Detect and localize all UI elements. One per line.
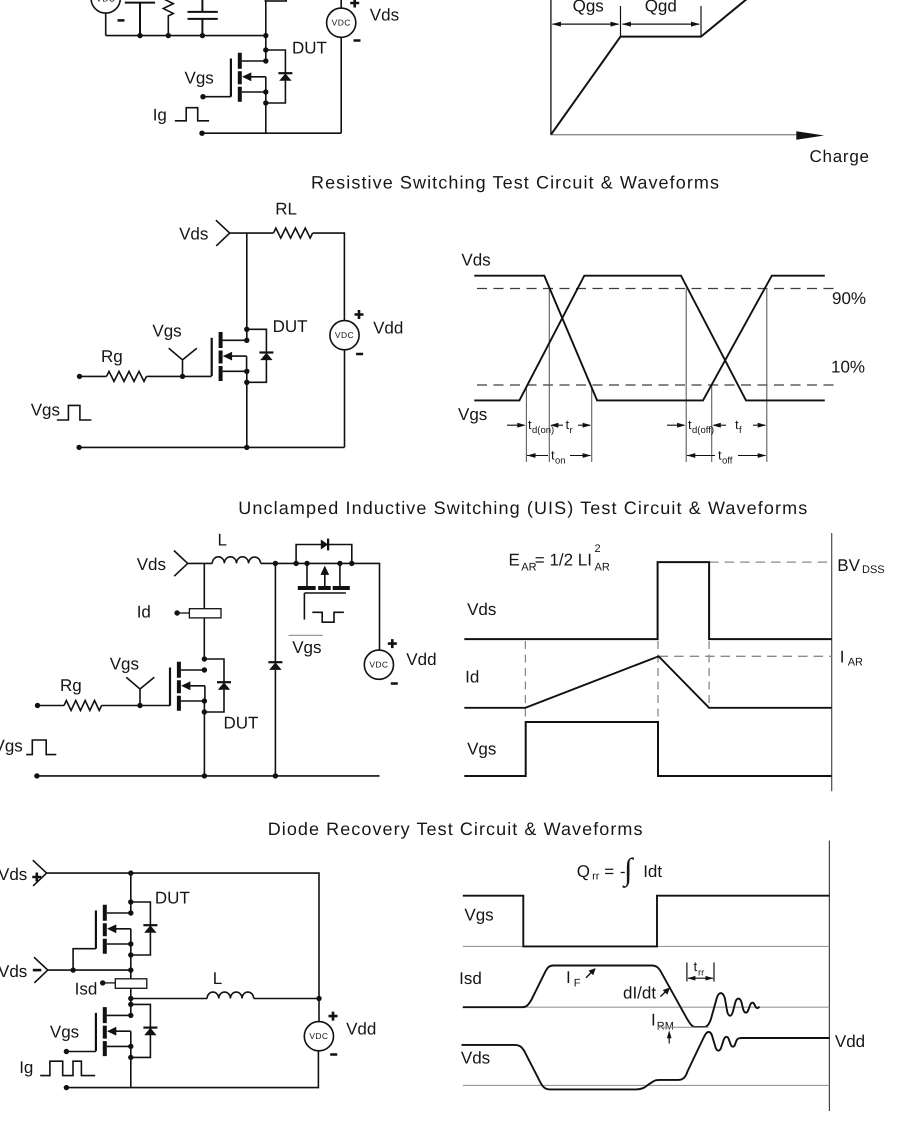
dimension arrow toff <box>687 455 766 457</box>
wire: Vds- to centre node <box>48 969 131 971</box>
svg-text:Ig: Ig <box>19 1058 33 1077</box>
svg-text:E: E <box>509 551 520 570</box>
probe Vds <box>174 551 188 577</box>
svg-text:Idt: Idt <box>643 862 662 881</box>
minus label of Vdd source <box>356 353 363 356</box>
current sense box Id <box>189 609 221 618</box>
svg-text:Diode Recovery Test Circuit &: Diode Recovery Test Circuit & Waveforms <box>268 819 643 839</box>
wire: drain vertical <box>246 233 248 340</box>
minus label of Vdd source <box>391 682 398 685</box>
tick line at Qgs end <box>620 6 622 37</box>
plus label of Vdd source <box>388 639 397 648</box>
voltage source VDC (Vdd) <box>304 1022 333 1051</box>
node: source tap (upper) <box>128 941 133 946</box>
svg-text:Unclamped Inductive Switching: Unclamped Inductive Switching (UIS) Test… <box>238 498 807 518</box>
svg-text:Qgd: Qgd <box>645 0 677 16</box>
dimension arrow Qgd <box>623 23 700 25</box>
svg-text:Id: Id <box>465 668 479 687</box>
wire: drain vertical <box>265 1 267 61</box>
svg-text:DUT: DUT <box>273 317 308 336</box>
wire: top rail <box>47 873 319 1022</box>
svg-text:Vdd: Vdd <box>835 1032 865 1051</box>
node: resistor / rail junction <box>166 33 171 38</box>
wire: upper source to Vds- node <box>130 944 132 970</box>
svg-text:Vgs: Vgs <box>185 68 214 87</box>
svg-text:AR: AR <box>848 657 863 669</box>
freewheel diode branch wire <box>274 563 276 776</box>
node: diode bottom tap <box>263 100 268 105</box>
svg-text:d(on): d(on) <box>532 425 554 436</box>
node: Vgs probe junction <box>137 703 142 708</box>
svg-text:90%: 90% <box>832 289 866 308</box>
transistor DUT (resistive switching) <box>212 332 247 381</box>
dashed timing line t1 <box>657 641 659 722</box>
wire: lower source to bottom rail <box>130 1046 132 1087</box>
svg-text:RM: RM <box>657 1020 674 1032</box>
pulse symbol Vgs <box>57 405 92 420</box>
node: drain tap <box>244 338 249 343</box>
node: freewheel diode / rail junction <box>273 773 278 778</box>
svg-text:AR: AR <box>595 561 610 573</box>
timing line tr end <box>591 386 593 462</box>
node: drain tap (lower) <box>128 1013 133 1018</box>
capacitor plate (battery, cropped) <box>125 3 155 36</box>
resistor Rg <box>64 701 102 711</box>
dimension arrow out of tdoff/tf boundary <box>714 424 726 426</box>
wire: Vds source to bottom rail <box>340 37 342 133</box>
voltage source VDC (Vds) <box>327 8 356 37</box>
tick line at Qgd end <box>700 6 702 37</box>
annotation arrow IF <box>586 970 593 977</box>
dimension arrow ton <box>527 455 591 457</box>
svg-text:F: F <box>574 978 581 990</box>
plus label of Vdd source <box>329 1012 338 1021</box>
svg-text:dI/dt: dI/dt <box>623 984 656 1003</box>
svg-text:Isd: Isd <box>75 979 98 998</box>
node: bottom rail left terminal <box>199 131 204 136</box>
inductor L <box>212 557 260 564</box>
wire: Isd stub <box>103 982 116 984</box>
svg-text:Vds: Vds <box>461 1049 490 1068</box>
transistor (lower switch) <box>96 1007 131 1056</box>
node: bottom rail left terminal <box>76 445 81 450</box>
svg-text:L: L <box>213 969 222 988</box>
timing line td(off) start <box>685 289 687 463</box>
wire: gate lead <box>203 96 231 98</box>
axis: horizontal Charge axis <box>551 134 796 136</box>
wire: bottom rail <box>79 446 344 448</box>
arrowhead of Charge axis <box>796 131 824 140</box>
node: Vgs probe junction <box>180 374 185 379</box>
svg-text:=: = <box>604 862 614 881</box>
wire: drain vertical (upper) <box>130 873 132 913</box>
wire: terminal to Rg <box>80 375 107 377</box>
minus label of gate supply <box>118 19 125 22</box>
wire: Id stub <box>177 612 189 614</box>
node: centre node junction <box>128 967 133 972</box>
svg-text:Vgs: Vgs <box>0 737 23 756</box>
svg-text:t: t <box>694 959 698 974</box>
transistor DUT (upper) <box>96 905 131 954</box>
svg-text:L: L <box>218 531 227 550</box>
node: source tap <box>244 369 249 374</box>
dashed level 10% <box>477 384 837 386</box>
wire: gate lead <box>66 1051 96 1053</box>
node: drain tap <box>263 58 268 63</box>
node: gate terminal <box>64 1049 69 1054</box>
svg-text:Vgs: Vgs <box>110 655 139 674</box>
annotation arrow IRM <box>668 1035 670 1044</box>
baseline (Vds low) <box>463 1084 830 1086</box>
svg-text:= 1/2 LI: = 1/2 LI <box>535 551 592 570</box>
svg-text:I: I <box>651 1010 656 1029</box>
svg-text:Vds: Vds <box>179 225 208 244</box>
svg-text:DUT: DUT <box>292 39 327 58</box>
wire: RL to Vdd source <box>313 233 345 320</box>
pulse symbol Vgs <box>26 740 56 755</box>
node: source tap (lower) <box>128 1044 133 1049</box>
formula Qrr = -integral Idt <box>577 852 663 889</box>
node: diode branch tap <box>263 47 268 52</box>
node: diode branch tap (lower) <box>128 1002 133 1007</box>
wire: Id sense vertical <box>203 563 205 659</box>
svg-text:Ig: Ig <box>153 105 167 124</box>
timing line td(on) start <box>525 386 527 462</box>
current sense box (cropped at top) <box>265 0 286 1</box>
svg-text:Q: Q <box>577 862 590 881</box>
wire: Vdd source to bottom rail <box>344 350 346 447</box>
waveform Vds <box>474 276 825 401</box>
probe Vds- <box>34 957 48 983</box>
node: drain tap <box>202 667 207 672</box>
svg-text:Isd: Isd <box>459 969 482 988</box>
wire: inductor to Vdd branch <box>254 998 319 1000</box>
node: clamp loop left junction <box>293 561 298 566</box>
current sense box Isd <box>115 979 147 989</box>
body diode of DUT <box>247 329 274 382</box>
svg-text:Resistive Switching Test Circu: Resistive Switching Test Circuit & Wavef… <box>311 173 719 193</box>
svg-text:Qgs: Qgs <box>573 0 604 16</box>
node: capacitor / rail junction <box>200 33 205 38</box>
waveform Vds (UIS) <box>464 562 831 639</box>
probe Y Vgs <box>169 348 197 376</box>
trr tick right <box>713 963 715 982</box>
waveform Vds with recovery ringing <box>462 1032 830 1090</box>
resistor Rg <box>107 371 147 381</box>
overline of Vgs-bar label <box>289 634 323 636</box>
node: gate tie junction <box>70 967 75 972</box>
wire: Vds node to inductor <box>188 562 213 564</box>
dashed timing line t0 <box>524 641 526 722</box>
svg-text:Vds: Vds <box>137 555 166 574</box>
node: inductor branch junction <box>128 996 133 1001</box>
svg-text:RL: RL <box>275 199 297 218</box>
timing line tf start <box>711 386 713 462</box>
node: source tap <box>263 89 268 94</box>
node: gate drive terminal <box>35 703 40 708</box>
svg-text:off: off <box>722 456 733 467</box>
node: rail / drain branch junction <box>263 33 268 38</box>
svg-text:d(off): d(off) <box>692 425 714 436</box>
node: top rail / DUT drain junction <box>128 870 133 875</box>
axis: right vertical (diode recovery plot) <box>828 841 830 1111</box>
node: clamp loop right junction <box>349 561 354 566</box>
minus label of Vds source <box>354 39 361 42</box>
dashed timing line t2 <box>708 641 710 708</box>
svg-text:rr: rr <box>698 968 704 979</box>
svg-text:Rg: Rg <box>60 676 82 695</box>
svg-text:f: f <box>739 425 742 436</box>
wire: Rg to gate <box>147 375 212 377</box>
rail wire of gate drive network <box>106 35 266 37</box>
minus label of Vds- probe <box>33 969 42 972</box>
formula EAR = 1/2 LIAR^2 <box>509 543 610 573</box>
node: diode branch tap <box>202 656 207 661</box>
svg-text:DUT: DUT <box>155 888 190 907</box>
svg-text:2: 2 <box>595 543 601 555</box>
svg-text:Id: Id <box>137 602 151 621</box>
wire: centre node to inductor <box>131 998 207 1000</box>
waveform Id (UIS) <box>464 656 831 708</box>
svg-text:Vgs: Vgs <box>464 906 493 925</box>
svg-text:Vds: Vds <box>461 251 490 270</box>
dashed level BVDSS <box>709 561 832 563</box>
wire: centre vertical through Isd box <box>130 970 132 1015</box>
node: source / rail junction <box>244 445 249 450</box>
node: Id terminal <box>174 610 179 615</box>
body diode of upper DUT <box>131 902 158 955</box>
transistor clamp switch (sideways) <box>298 563 350 619</box>
transistor DUT (gate charge) <box>231 53 266 102</box>
inverted pulse symbol <box>312 612 344 622</box>
plus label of Vdd source <box>355 310 364 319</box>
wire: Vds node to RL <box>230 232 274 234</box>
voltage source VDC (Vdd) <box>330 321 359 350</box>
body diode of DUT <box>266 50 293 103</box>
wire: upper gate tie to source node <box>73 949 96 970</box>
pulse symbol Ig <box>175 108 209 121</box>
probe Y Vgs <box>126 677 154 705</box>
transistor DUT (UIS) <box>170 662 205 711</box>
waveform Vgs (diode recovery) <box>463 896 830 947</box>
voltage source VDC (Vdd) <box>364 650 393 679</box>
svg-text:Vgs: Vgs <box>458 405 487 424</box>
waveform Isd with recovery ringing <box>463 966 760 1028</box>
freewheel diode <box>268 661 282 663</box>
node: inductor / Vdd branch junction <box>316 996 321 1001</box>
svg-text:Vdd: Vdd <box>406 650 436 669</box>
resistor (gate network, cropped) <box>163 0 173 36</box>
wire: bottom rail <box>202 132 341 134</box>
wire from gate supply to bottom rail <box>105 13 107 36</box>
plus label of Vds probe <box>32 873 41 882</box>
level line IRM <box>658 1026 709 1028</box>
wire: bottom rail <box>66 1051 318 1088</box>
axis: vertical (gate charge plot) <box>550 0 552 135</box>
clamp diode <box>321 540 328 550</box>
svg-text:Vds: Vds <box>0 962 27 981</box>
annotation arrow dI/dt <box>660 990 667 997</box>
trr tick left <box>686 963 688 982</box>
node: DUT source / rail junction <box>202 773 207 778</box>
dimension arrow Qgs <box>553 23 619 25</box>
clamp diode loop wire <box>296 545 352 564</box>
node: Isd terminal <box>100 980 105 985</box>
probe Vds+ <box>33 860 47 886</box>
wire: source to bottom rail <box>203 701 205 776</box>
svg-text:BV: BV <box>837 556 860 575</box>
node: drain tap (upper) <box>128 910 133 915</box>
svg-text:DSS: DSS <box>862 564 885 576</box>
wire: Vds source top stub <box>340 0 342 8</box>
timing line tf end <box>766 289 768 463</box>
svg-text:Vgs: Vgs <box>292 638 321 657</box>
minus label of Vdd source <box>330 1053 337 1056</box>
dimension arrows trr <box>688 977 713 979</box>
body diode of lower switch <box>131 1004 158 1057</box>
node: gate drive terminal <box>77 374 82 379</box>
node: diode branch tap <box>244 327 249 332</box>
node: source tap <box>202 698 207 703</box>
dashed level IAR <box>659 655 832 657</box>
resistor RL <box>273 228 312 238</box>
wire: bottom rail <box>37 775 380 777</box>
svg-text:Rg: Rg <box>101 347 123 366</box>
waveform: gate voltage vs charge <box>551 0 747 135</box>
svg-text:rr: rr <box>592 870 600 882</box>
baseline (Isd zero) <box>463 1006 830 1008</box>
pulse symbol Ig (double pulse) <box>40 1061 95 1075</box>
dimension arrow out of tdon/tr boundary <box>552 424 564 426</box>
svg-text:on: on <box>555 456 566 467</box>
svg-text:Vdd: Vdd <box>373 319 403 338</box>
svg-text:DUT: DUT <box>224 714 259 733</box>
wire: source to bottom rail <box>246 371 248 447</box>
dimension arrow into tf end <box>753 424 765 426</box>
svg-text:Charge: Charge <box>810 147 870 166</box>
baseline (Vgs zero) <box>463 945 830 947</box>
svg-text:Vds: Vds <box>0 865 27 884</box>
node: diode bottom tap (upper) <box>128 952 133 957</box>
svg-text:r: r <box>570 425 573 436</box>
node: bottom rail left terminal <box>64 1085 69 1090</box>
wire: inductor to clamp and Vdd branch <box>261 563 380 650</box>
svg-text:10%: 10% <box>831 357 865 376</box>
probe Vds <box>216 220 230 246</box>
wire: terminal to Rg <box>38 705 65 707</box>
wire: source to bottom rail <box>265 92 267 133</box>
svg-text:I: I <box>566 968 571 987</box>
node: diode bottom tap <box>202 709 207 714</box>
node: clamp left leg <box>304 561 309 566</box>
svg-text:Vds: Vds <box>467 600 496 619</box>
svg-text:Vdd: Vdd <box>346 1020 376 1039</box>
dashed level 90% <box>477 288 840 290</box>
node: clamp right leg <box>337 561 342 566</box>
svg-text:Vgs: Vgs <box>50 1023 79 1042</box>
svg-text:Vgs: Vgs <box>152 322 181 341</box>
node: bottom rail left terminal <box>34 773 39 778</box>
svg-text:Vds: Vds <box>370 6 399 25</box>
svg-text:Vgs: Vgs <box>467 740 496 759</box>
plus label of Vds source <box>350 0 359 8</box>
wire: Rg to gate <box>102 705 171 707</box>
node: diode bottom tap <box>244 380 249 385</box>
node: Vgs terminal <box>200 94 205 99</box>
timing line td(on) end <box>548 289 550 463</box>
voltage source VDC (gate supply, cropped) <box>91 0 120 13</box>
node: freewheel diode tap <box>273 561 278 566</box>
axis: right vertical (UIS plot) <box>831 533 833 791</box>
inductor L <box>207 992 254 998</box>
node: diode bottom tap (lower) <box>128 1055 133 1060</box>
node: battery / rail junction <box>137 33 142 38</box>
dimension arrow into td(on) <box>507 424 524 426</box>
dimension arrow into td(off) <box>667 424 684 426</box>
node: diode branch tap (upper) <box>128 899 133 904</box>
capacitor C (gate network) <box>188 0 218 36</box>
waveform Vgs <box>474 276 825 401</box>
waveform Vgs (UIS) <box>464 722 831 776</box>
body diode of DUT <box>204 659 231 712</box>
dimension arrow into tr end <box>578 424 590 426</box>
svg-text:I: I <box>840 648 845 667</box>
svg-text:Vgs: Vgs <box>31 401 60 420</box>
